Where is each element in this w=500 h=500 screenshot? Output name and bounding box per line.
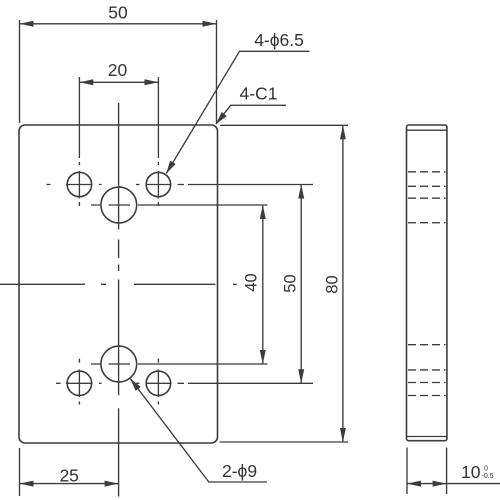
dimension 20: left arrow [79, 79, 93, 85]
leader 4-C1: leader line and underline [216, 105, 286, 124]
svg-text:10: 10 [461, 462, 481, 482]
dimension 10: left arrow [407, 481, 421, 487]
hole top φ9 [101, 187, 137, 223]
dimension 50 top: dimension line [20, 23, 217, 25]
dimension 40: dimension line [262, 205, 264, 364]
dimension 80: extension lines [220, 125, 349, 442]
dimension 20: right arrow [145, 79, 159, 85]
svg-text:20: 20 [108, 60, 128, 80]
leader 2-φ9: leader line and underline [130, 379, 267, 482]
dimension 80: dimension line [342, 125, 344, 442]
hole top-right φ6.5 [146, 172, 170, 196]
svg-text:0: 0 [484, 466, 488, 473]
svg-text:4-C1: 4-C1 [240, 84, 278, 104]
hole bottom-left φ6.5 [67, 371, 91, 395]
svg-text:4-ϕ6.5: 4-ϕ6.5 [254, 30, 304, 50]
top large hole centerline y=205 with extension to 40-dim [91, 204, 268, 206]
bottom large hole centerline y=364 with extension to 40-dim [91, 363, 268, 365]
leader 4-φ6.5: leader line and underline [166, 51, 309, 173]
side view outline [407, 125, 447, 441]
side view bottom chamfer line [407, 436, 447, 438]
svg-text:50: 50 [282, 274, 300, 292]
dimension 50 right: top arrow [298, 185, 304, 199]
leader 4-φ6.5: arrowhead [166, 161, 175, 174]
right hole column centerline x=158.4 (20-dim extension) [157, 77, 159, 405]
horizontal centerline [0, 283, 237, 285]
dimension 50 top: right arrow [203, 21, 217, 27]
dimension 80: bottom arrow [340, 428, 346, 442]
svg-text:-0.5: -0.5 [482, 473, 494, 480]
leader 4-C1: arrowhead [216, 112, 227, 124]
bottom hole row centerline y=383.3 with extension to 50-dim [56, 382, 313, 384]
side view top chamfer line [407, 129, 447, 131]
dimension 50 top: extension lines [20, 20, 217, 123]
dimension 40: top arrow [260, 205, 266, 219]
hole bottom-right φ6.5 [146, 371, 170, 395]
dimension 25: dimension line [20, 483, 119, 485]
svg-text:25: 25 [59, 465, 78, 485]
dimension 10: dimension line [407, 483, 500, 485]
dimension 50 right: bottom arrow [298, 369, 304, 383]
hole bottom φ9 [101, 346, 137, 382]
left hole column centerline x=79.4 (20-dim extension) [78, 77, 80, 405]
dimension 10: extension lines [407, 448, 447, 495]
dimension 25: left arrow [20, 481, 34, 487]
dimension 10: right arrow [433, 481, 447, 487]
dimension 50 top: left arrow [20, 21, 34, 27]
vertical centerline [118, 103, 120, 497]
dimension 80: top arrow [340, 125, 346, 139]
dimension 20: dimension line [79, 81, 158, 83]
dimension 25: left extension line [19, 448, 21, 496]
svg-text:40: 40 [242, 273, 260, 291]
svg-text:80: 80 [323, 275, 341, 293]
dimension 25: right arrow [105, 481, 119, 487]
top hole row centerline y=184.5 with extension to 50-dim [47, 184, 314, 186]
side view hidden hole lines (dashed) [408, 172, 446, 396]
dimension 40: bottom arrow [260, 350, 266, 364]
dimension 50 right: dimension line [300, 185, 302, 384]
hole top-left φ6.5 [67, 172, 91, 196]
svg-text:2-ϕ9: 2-ϕ9 [222, 461, 257, 481]
front view plate outline [19, 125, 218, 443]
leader 2-φ9: arrowhead [130, 379, 141, 391]
svg-text:50: 50 [108, 3, 128, 23]
